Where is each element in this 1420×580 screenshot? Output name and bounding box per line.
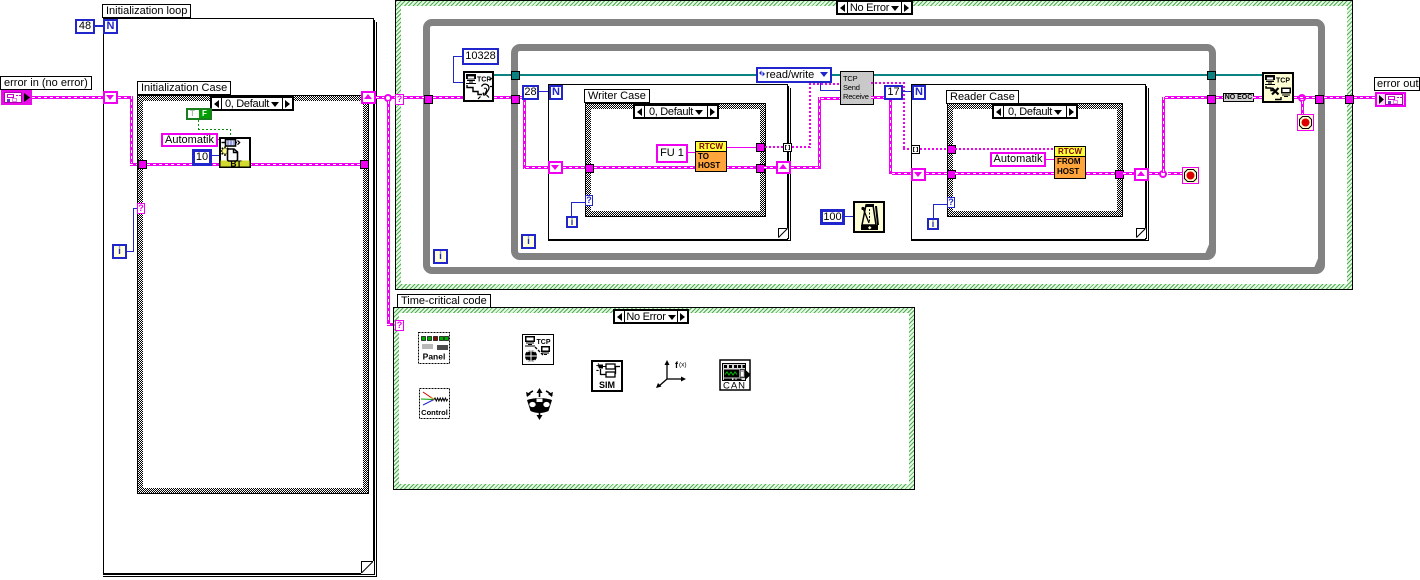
wire 48 to N bbox=[95, 25, 104, 27]
string constant Automatik 2 bbox=[990, 152, 1046, 167]
green boolean wire TF to BT node bbox=[198, 120, 199, 129]
label error out bbox=[1374, 77, 1420, 91]
wire shift register to case bbox=[118, 96, 133, 99]
wire SR to writer case bbox=[563, 166, 585, 169]
constant 100 bbox=[820, 209, 845, 225]
error in terminal bbox=[1, 90, 32, 105]
tunnel on outer loop left bbox=[424, 95, 433, 104]
constant 28 bbox=[522, 85, 539, 100]
reader case tunnel right bbox=[1115, 170, 1124, 179]
magenta tunnel inner loop right bbox=[1207, 95, 1216, 104]
shift register writer left bbox=[548, 161, 563, 174]
wire reader SR out bbox=[1149, 172, 1161, 175]
wire up-SR writer out bbox=[764, 166, 776, 169]
stop button 1 bbox=[1182, 167, 1199, 184]
tunnel big case right bbox=[1345, 95, 1354, 104]
teal tunnel inner loop left bbox=[511, 71, 520, 80]
? tunnel on big case left bbox=[395, 94, 404, 105]
for-loop reader main bbox=[911, 84, 1146, 240]
for-loop Initialization loop stacked frame line 2 bbox=[103, 20, 375, 575]
label error in (no error) bbox=[0, 76, 92, 90]
case selector No Error bbox=[836, 0, 913, 15]
for-loop reader stacked line2 bbox=[911, 86, 1147, 239]
for-loop writer main bbox=[548, 84, 788, 240]
iteration terminal i inner bbox=[521, 234, 536, 249]
error wire writer SR to TCP node bbox=[791, 166, 821, 169]
case selector ? tunnel bbox=[137, 203, 145, 214]
wire 10328 to TCP listen bbox=[453, 56, 462, 57]
shift register right (up) of init loop bbox=[361, 91, 376, 104]
label Initialization loop bbox=[102, 4, 191, 18]
string out wire RTCW bbox=[727, 147, 758, 148]
junction ring bbox=[384, 94, 392, 102]
label Reader Case bbox=[946, 90, 1019, 104]
while loop inner gray bbox=[511, 44, 1216, 260]
? tunnel time-critical bbox=[395, 320, 404, 331]
svg-text:SIM: SIM bbox=[599, 380, 615, 390]
blue wire read/write to TCP node bbox=[820, 83, 821, 91]
writer case tunnel left bbox=[585, 164, 594, 173]
teal TCP connection wire full run bbox=[494, 74, 1207, 76]
magenta tunnel inner loop left bbox=[511, 95, 520, 104]
dotted wire inside reader case bbox=[955, 148, 1054, 150]
icon steering wheel bbox=[523, 388, 556, 420]
wire to NO EOC bbox=[1216, 96, 1224, 99]
wire Automatik to RTCW FROM bbox=[1046, 159, 1054, 160]
wire to green tunnel bbox=[1324, 96, 1345, 99]
svg-text:Panel: Panel bbox=[423, 352, 446, 362]
node BT (open RT reference) bbox=[219, 137, 251, 168]
writer case ? tunnel bbox=[585, 195, 593, 206]
dotted wire [] to reader case bbox=[920, 148, 947, 150]
numeric constant 10 bbox=[192, 149, 212, 166]
[] indexing tunnel reader bbox=[911, 145, 920, 154]
wire 10 to BT node bbox=[212, 155, 219, 156]
node TCP listen bbox=[463, 71, 494, 102]
for-loop Initialization loop stacked frame line 3 bbox=[103, 22, 377, 577]
reader main wire bbox=[955, 172, 1115, 175]
node NO EOC bbox=[1223, 93, 1254, 102]
reader case tunnel left top bbox=[947, 145, 956, 154]
shift register left (down) bbox=[103, 91, 118, 104]
iteration terminal i writer bbox=[566, 216, 578, 228]
case selector 0, Default bbox=[210, 96, 294, 111]
node RTCW TO HOST bbox=[695, 141, 727, 172]
reader dog-ear bbox=[1136, 228, 1146, 238]
boolean constant TF (false) bbox=[186, 108, 212, 120]
constant 10328 bbox=[462, 48, 499, 65]
for-loop writer stacked line3 bbox=[548, 88, 791, 241]
case structure No Error (big) bbox=[395, 0, 1353, 290]
icon Control bbox=[419, 388, 450, 419]
outer loop corner arrow bbox=[1305, 250, 1325, 274]
enum constant read/write bbox=[756, 67, 832, 83]
wire Automatik to BT node bbox=[217, 139, 220, 140]
svg-text:(x): (x) bbox=[679, 362, 687, 369]
tunnel out of Initialization Case bbox=[360, 160, 369, 169]
iteration terminal i outer bbox=[433, 249, 448, 264]
wire init loop to big case bbox=[376, 96, 396, 99]
wire tunnel down to writer loop bbox=[520, 96, 526, 99]
writer main wire bbox=[594, 166, 758, 169]
writer case tunnel right bottom bbox=[756, 164, 765, 173]
writer dog-ear bbox=[778, 228, 788, 238]
count terminal N reader bbox=[912, 85, 926, 100]
shift register reader right (up) bbox=[1134, 168, 1149, 181]
label Time-critical code bbox=[397, 294, 491, 308]
writer case tunnel right top bbox=[756, 143, 765, 152]
TCP node outputs bbox=[871, 82, 905, 84]
wire tunnel to TCP listen bbox=[404, 96, 424, 99]
node TCP close bbox=[1262, 72, 1294, 103]
case structure time-critical No Error bbox=[393, 307, 915, 490]
case structure Initialization Case bbox=[137, 95, 369, 494]
junction ring reader bbox=[1159, 170, 1167, 178]
for-loop Initialization loop main frame bbox=[103, 18, 374, 574]
string constant FU 1 bbox=[656, 144, 688, 163]
constant 48 bbox=[75, 19, 95, 34]
wire 28 to N bbox=[539, 91, 549, 92]
reader case tunnel left bottom bbox=[947, 170, 956, 179]
shift register reader left bbox=[911, 168, 926, 181]
while loop outer gray bbox=[423, 19, 1325, 274]
node RTCW FROM HOST bbox=[1054, 146, 1086, 179]
node TCP Send Receive bbox=[840, 71, 874, 105]
string constant Automatik bbox=[161, 133, 218, 147]
wire up to inner loop tunnel bbox=[1162, 97, 1165, 173]
wire to stop button 1 bbox=[1168, 172, 1182, 175]
svg-text:TCP: TCP bbox=[1276, 78, 1290, 85]
wire to reader up SR bbox=[1123, 172, 1136, 175]
svg-text:CAN: CAN bbox=[723, 381, 746, 392]
icon SIM bbox=[591, 360, 623, 392]
wire 17 to N bbox=[903, 91, 912, 92]
wire error in to loop bbox=[32, 96, 103, 99]
count terminal N writer bbox=[549, 85, 563, 100]
wire TCP close to outer tunnel bbox=[1294, 96, 1315, 99]
wire i to ? writer bbox=[571, 202, 572, 216]
label Writer Case bbox=[584, 89, 650, 103]
iteration terminal i reader bbox=[927, 218, 939, 230]
stop button 2 bbox=[1297, 114, 1314, 131]
selector No Error (time-critical) bbox=[613, 309, 689, 324]
main error wire through case bbox=[147, 163, 360, 166]
[] indexing tunnel writer bbox=[783, 143, 792, 152]
error wire TCP listen to inner loop bbox=[494, 96, 511, 99]
reader case selector bbox=[992, 104, 1078, 119]
case structure Reader Case bbox=[947, 103, 1123, 217]
label Initialization Case bbox=[137, 81, 231, 95]
case structure Writer Case bbox=[585, 103, 766, 217]
svg-text:-: - bbox=[596, 365, 599, 375]
wire 100 to metronome bbox=[845, 216, 853, 217]
teal tunnel inner loop right bbox=[1207, 71, 1216, 80]
constant 17 bbox=[884, 85, 903, 100]
wire NO EOC to TCP close bbox=[1253, 96, 1262, 99]
icon TCP pair bbox=[522, 334, 554, 365]
wire FU1 to RTCW bbox=[688, 152, 695, 153]
for-loop writer stacked line2 bbox=[548, 86, 789, 239]
wire down to stop 2 bbox=[1301, 101, 1304, 114]
error out indicator bbox=[1375, 92, 1406, 107]
icon Panel bbox=[418, 332, 450, 364]
wire i to ? bbox=[127, 251, 134, 252]
junction ring 2 bbox=[1298, 94, 1306, 102]
tunnel into Initialization Case bbox=[138, 160, 147, 169]
dotted array wire to loop edge bbox=[765, 146, 783, 148]
svg-text:Control: Control bbox=[421, 408, 448, 417]
wire down to time-critical bbox=[387, 101, 390, 324]
tunnel outer loop right bbox=[1315, 95, 1324, 104]
iteration terminal i bbox=[112, 244, 127, 259]
node wait until next ms multiple (metronome) bbox=[853, 201, 885, 233]
reader case ? tunnel bbox=[947, 197, 955, 208]
count terminal N bbox=[103, 19, 118, 34]
for-loop dog-ear corner bbox=[361, 561, 374, 574]
shift register writer right (up) bbox=[776, 161, 791, 174]
wire i to ? reader bbox=[933, 204, 934, 218]
icon f(x) axes bbox=[655, 358, 690, 388]
writer case selector bbox=[633, 104, 719, 119]
wire to error out bbox=[1354, 96, 1375, 99]
for-loop reader stacked line3 bbox=[911, 88, 1149, 241]
wire reader SR to case bbox=[926, 172, 947, 175]
inner loop corner arrow bbox=[1196, 236, 1216, 260]
icon CAN bbox=[719, 359, 751, 391]
dotted array wire writer to TCP node bbox=[792, 146, 811, 148]
svg-text:TCP: TCP bbox=[537, 339, 551, 346]
